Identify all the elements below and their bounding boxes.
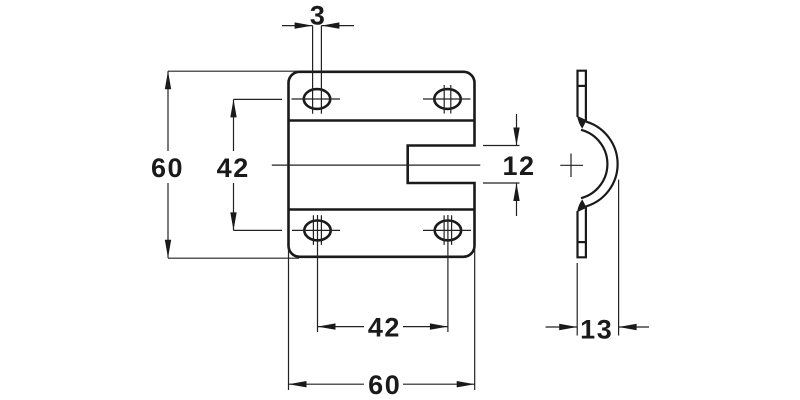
dim 60 bottom: dimension line (broken for text) (289, 383, 365, 385)
side view bottom strip cross line (578, 241, 586, 243)
crosshair verticals bottom-left hole (312, 215, 314, 245)
side view top strip (578, 71, 586, 122)
plate outline with slot (289, 72, 475, 257)
arrowheads dim 60 bottom (289, 381, 307, 387)
svg-text:60: 60 (368, 370, 401, 400)
side view bottom strip (578, 206, 586, 257)
dim 42 left: extension lines (234, 98, 283, 100)
crosshair horizontal top-left hole (292, 98, 341, 100)
dim 60 left: extension lines (168, 70, 299, 72)
hole bottom-right (435, 221, 461, 241)
crosshair verticals bottom-right hole (443, 215, 445, 245)
side view bump inner arc (581, 130, 607, 198)
svg-text:13: 13 (580, 315, 613, 345)
hole top-right (434, 89, 460, 109)
dim 42 bottom: extension lines (317, 215, 319, 332)
arrowheads dim 12 (513, 128, 519, 146)
dim 3: extension lines through top-left hole (312, 26, 314, 114)
dim 12: extension lines (483, 145, 520, 147)
dim 42 bottom: dimension line (broken for text) (318, 326, 365, 328)
svg-text:42: 42 (368, 313, 401, 343)
dim 12: arrow tails (516, 114, 518, 146)
lower bend line (289, 208, 475, 211)
svg-text:60: 60 (151, 153, 184, 183)
dim 13: extension lines (576, 263, 578, 336)
arrowheads dim 42 left (230, 99, 236, 117)
hole bottom-left (304, 221, 330, 241)
side view centre cross (560, 164, 583, 166)
arrowheads dim 3 (295, 22, 313, 28)
svg-text:42: 42 (217, 153, 250, 183)
side view bottom wedge (577, 199, 587, 212)
crosshair horizontal bottom-right hole (423, 229, 471, 231)
svg-text:12: 12 (502, 151, 535, 181)
side view bump outer arc (586, 122, 618, 207)
arrowheads dim 13 (559, 324, 577, 330)
dim 60 left: dimension line (broken for text) (167, 71, 169, 151)
dim 3: dimension line tails (282, 25, 313, 27)
hole top-left (304, 89, 330, 109)
crosshair verticals top-right hole (443, 85, 445, 114)
svg-text:3: 3 (310, 1, 325, 31)
arrowheads dim 42 bottom (318, 323, 336, 329)
arrowheads dim 60 left (165, 71, 171, 89)
crosshair horizontal bottom-left hole (292, 229, 340, 231)
dim 42 left: dimension line (broken for text) (233, 99, 235, 151)
slot centerline (272, 164, 481, 166)
dim 13: arrow tails (546, 326, 578, 328)
upper bend line (289, 119, 475, 122)
crosshair horizontal top-right hole (423, 98, 471, 100)
dim 60 bottom: extension lines (288, 246, 290, 390)
side view top strip cross line (578, 85, 586, 87)
side view top wedge (577, 116, 587, 129)
